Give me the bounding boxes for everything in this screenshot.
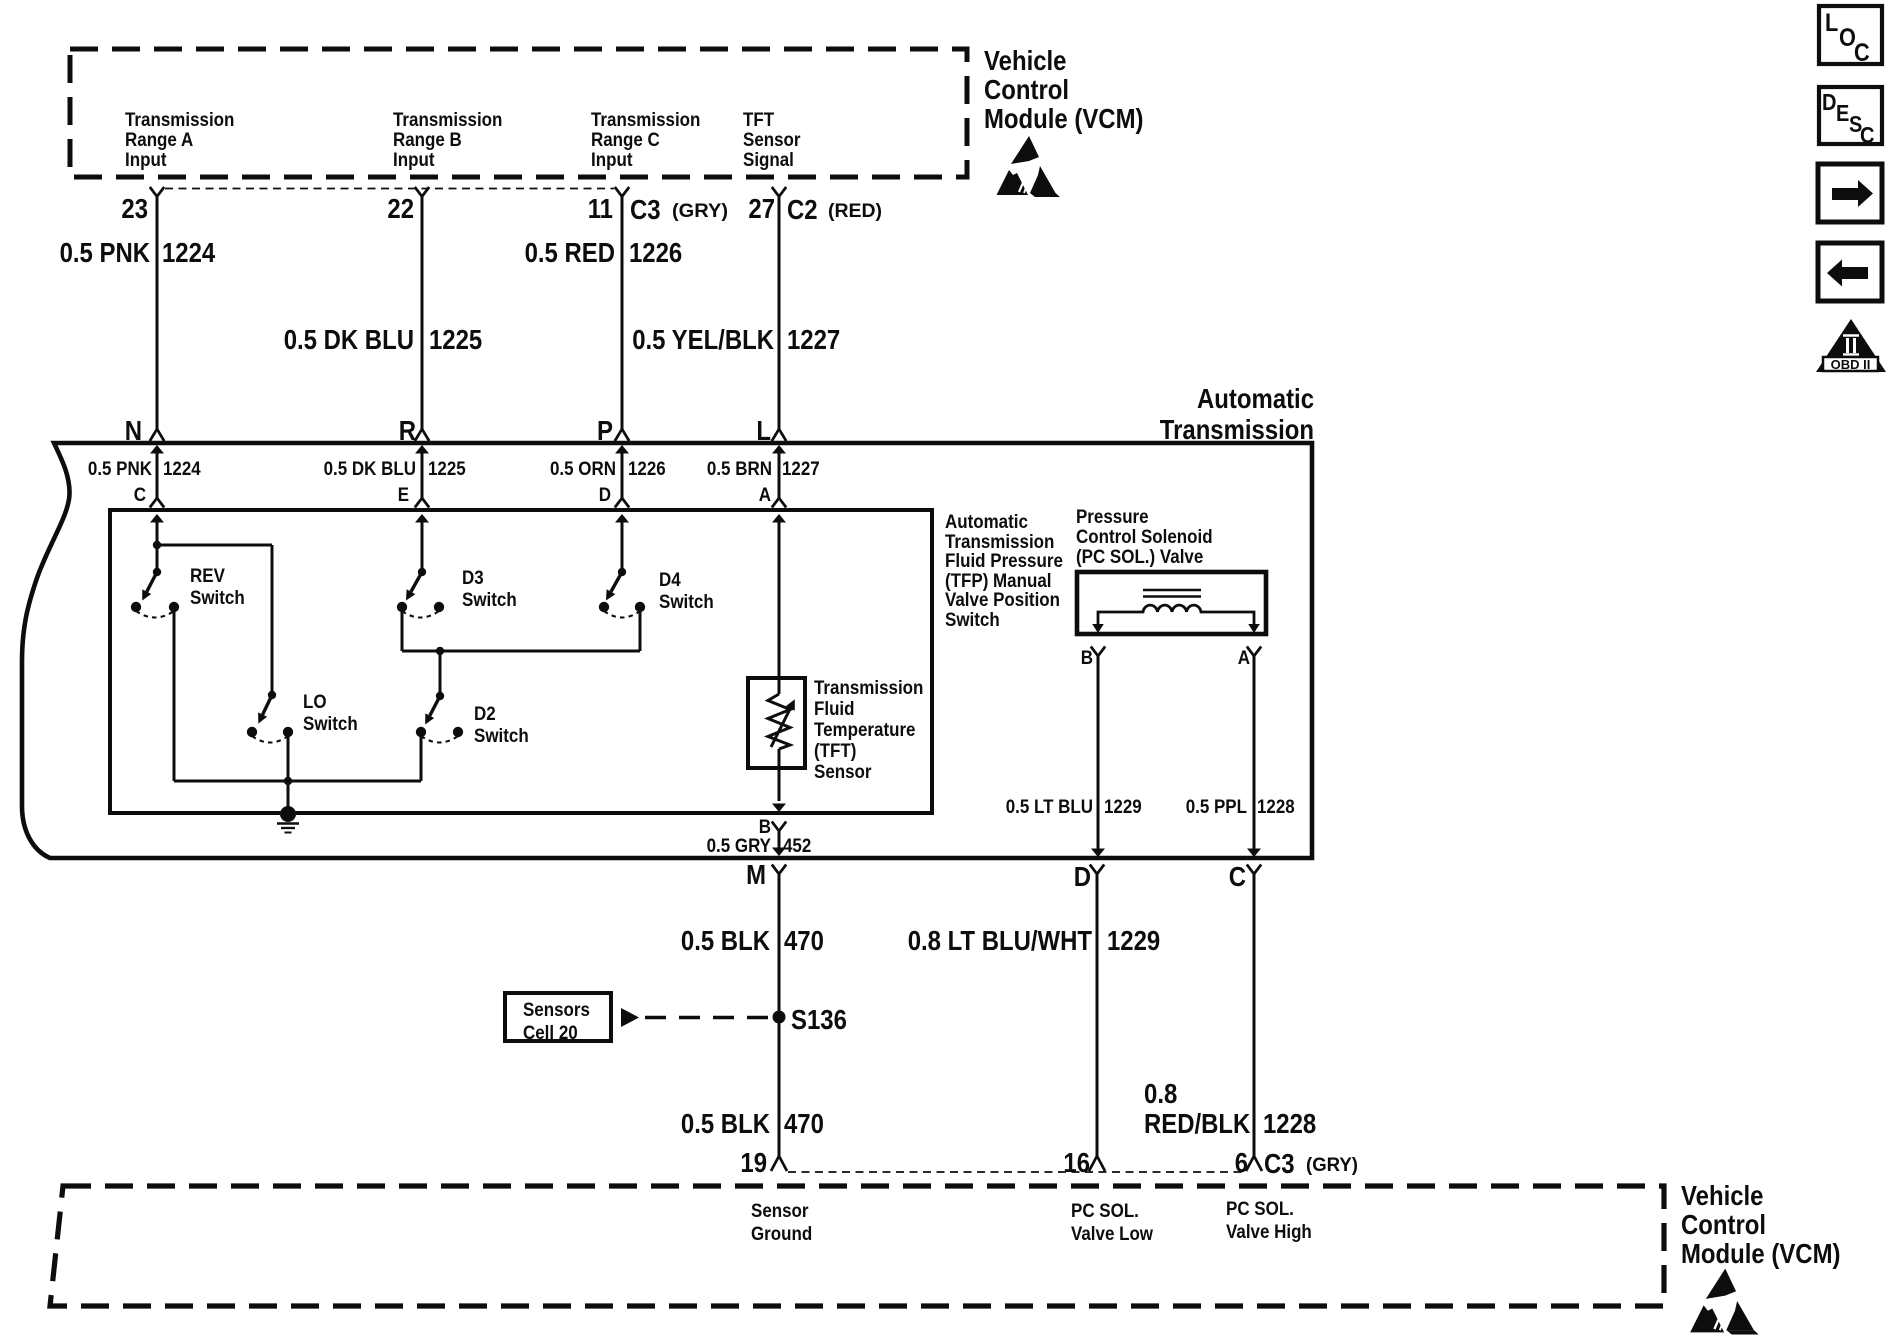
- svg-text:6: 6: [1235, 1147, 1248, 1178]
- svg-text:1224: 1224: [163, 458, 201, 480]
- svg-text:0.5 YEL/BLK: 0.5 YEL/BLK: [632, 324, 774, 355]
- svg-text:0.5 DK BLU: 0.5 DK BLU: [324, 458, 416, 480]
- svg-text:1225: 1225: [429, 324, 482, 355]
- svg-text:0.5 PNK: 0.5 PNK: [88, 458, 152, 480]
- svg-text:1229: 1229: [1107, 925, 1160, 956]
- svg-text:C3: C3: [630, 194, 661, 225]
- svg-text:1226: 1226: [629, 237, 682, 268]
- svg-text:22: 22: [387, 193, 414, 224]
- svg-text:Input: Input: [591, 149, 633, 171]
- svg-text:Vehicle: Vehicle: [1681, 1180, 1764, 1211]
- svg-text:Transmission: Transmission: [393, 109, 502, 131]
- svg-text:Switch: Switch: [659, 591, 714, 613]
- svg-text:PC SOL.: PC SOL.: [1226, 1198, 1294, 1220]
- svg-text:Transmission: Transmission: [125, 109, 234, 131]
- svg-text:Range C: Range C: [591, 129, 660, 151]
- svg-text:Range A: Range A: [125, 129, 193, 151]
- svg-text:Temperature: Temperature: [814, 719, 916, 741]
- svg-text:A: A: [759, 484, 771, 506]
- svg-text:Input: Input: [125, 149, 167, 171]
- svg-text:Transmission: Transmission: [1160, 414, 1314, 445]
- svg-text:0.8 LT BLU/WHT: 0.8 LT BLU/WHT: [908, 925, 1092, 956]
- svg-text:E: E: [1836, 100, 1849, 126]
- svg-text:470: 470: [784, 1108, 824, 1139]
- svg-text:0.5 BRN: 0.5 BRN: [707, 458, 772, 480]
- svg-text:0.5 PPL: 0.5 PPL: [1186, 796, 1247, 818]
- svg-text:1224: 1224: [162, 237, 216, 268]
- svg-text:PC SOL.: PC SOL.: [1071, 1200, 1139, 1222]
- svg-text:1225: 1225: [428, 458, 466, 480]
- svg-text:Transmission: Transmission: [814, 677, 923, 699]
- svg-text:D4: D4: [659, 569, 681, 591]
- svg-text:0.8: 0.8: [1144, 1078, 1177, 1109]
- svg-text:A: A: [1238, 647, 1250, 669]
- svg-text:0.5 GRY: 0.5 GRY: [707, 835, 771, 857]
- svg-text:D2: D2: [474, 703, 496, 725]
- svg-text:Valve High: Valve High: [1226, 1221, 1312, 1243]
- svg-text:1226: 1226: [628, 458, 666, 480]
- svg-text:Vehicle: Vehicle: [984, 45, 1067, 76]
- svg-text:LO: LO: [303, 691, 327, 713]
- svg-text:470: 470: [784, 925, 824, 956]
- svg-text:27: 27: [748, 193, 775, 224]
- svg-text:1227: 1227: [782, 458, 820, 480]
- svg-text:0.5 BLK: 0.5 BLK: [681, 1108, 770, 1139]
- svg-text:Sensor: Sensor: [743, 129, 801, 151]
- svg-text:Ground: Ground: [751, 1223, 812, 1245]
- svg-text:Range B: Range B: [393, 129, 462, 151]
- svg-text:0.5 LT BLU: 0.5 LT BLU: [1006, 796, 1093, 818]
- svg-text:Fluid Pressure: Fluid Pressure: [945, 550, 1063, 572]
- svg-text:Module (VCM): Module (VCM): [1681, 1238, 1841, 1269]
- svg-text:0.5 ORN: 0.5 ORN: [550, 458, 616, 480]
- svg-text:REV: REV: [190, 565, 225, 587]
- svg-text:0.5 PNK: 0.5 PNK: [60, 237, 151, 268]
- svg-text:C: C: [134, 484, 146, 506]
- svg-text:Module (VCM): Module (VCM): [984, 103, 1144, 134]
- svg-text:1228: 1228: [1257, 796, 1295, 818]
- svg-text:19: 19: [740, 1147, 767, 1178]
- svg-text:D: D: [599, 484, 611, 506]
- svg-text:Switch: Switch: [474, 725, 529, 747]
- svg-text:E: E: [398, 484, 409, 506]
- svg-text:Switch: Switch: [462, 589, 517, 611]
- svg-text:23: 23: [121, 193, 148, 224]
- svg-text:Automatic: Automatic: [1197, 383, 1314, 414]
- svg-text:11: 11: [588, 193, 613, 224]
- svg-text:Control Solenoid: Control Solenoid: [1076, 526, 1213, 548]
- svg-text:Valve Low: Valve Low: [1071, 1223, 1154, 1245]
- svg-text:Automatic: Automatic: [945, 511, 1028, 533]
- svg-text:Sensor: Sensor: [751, 1200, 809, 1222]
- svg-text:Sensor: Sensor: [814, 761, 872, 783]
- svg-text:OBD II: OBD II: [1831, 357, 1871, 372]
- svg-text:Control: Control: [984, 74, 1069, 105]
- svg-text:Transmission: Transmission: [591, 109, 700, 131]
- svg-text:Cell 20: Cell 20: [523, 1022, 578, 1044]
- svg-text:(PC SOL.) Valve: (PC SOL.) Valve: [1076, 546, 1203, 568]
- svg-text:1227: 1227: [787, 324, 840, 355]
- svg-text:1229: 1229: [1104, 796, 1142, 818]
- svg-text:1228: 1228: [1263, 1108, 1316, 1139]
- svg-text:Sensors: Sensors: [523, 999, 590, 1021]
- svg-text:16: 16: [1063, 1147, 1090, 1178]
- svg-text:0.5 DK BLU: 0.5 DK BLU: [284, 324, 414, 355]
- svg-text:C: C: [1860, 122, 1875, 148]
- svg-text:D: D: [1074, 861, 1091, 892]
- svg-text:452: 452: [783, 835, 811, 857]
- svg-text:Control: Control: [1681, 1209, 1766, 1240]
- svg-text:B: B: [1081, 647, 1093, 669]
- svg-text:C2: C2: [787, 194, 818, 225]
- svg-text:(GRY): (GRY): [672, 200, 728, 222]
- svg-text:(GRY): (GRY): [1306, 1154, 1358, 1176]
- svg-text:TFT: TFT: [743, 109, 774, 131]
- svg-text:RED/BLK: RED/BLK: [1144, 1108, 1250, 1139]
- svg-text:0.5 BLK: 0.5 BLK: [681, 925, 770, 956]
- svg-text:Fluid: Fluid: [814, 698, 855, 720]
- svg-text:C: C: [1854, 39, 1870, 67]
- svg-text:D: D: [1822, 89, 1837, 115]
- svg-text:Switch: Switch: [945, 609, 1000, 631]
- svg-text:0.5 RED: 0.5 RED: [525, 237, 615, 268]
- svg-text:Pressure: Pressure: [1076, 506, 1149, 528]
- svg-text:D3: D3: [462, 567, 484, 589]
- svg-text:C3: C3: [1264, 1148, 1295, 1179]
- svg-text:Switch: Switch: [190, 587, 245, 609]
- svg-text:(RED): (RED): [828, 200, 882, 222]
- svg-text:C: C: [1229, 861, 1246, 892]
- svg-text:S136: S136: [791, 1004, 847, 1035]
- svg-text:Input: Input: [393, 149, 435, 171]
- svg-text:Signal: Signal: [743, 149, 794, 171]
- svg-text:Switch: Switch: [303, 713, 358, 735]
- svg-text:M: M: [746, 859, 766, 890]
- svg-text:Valve Position: Valve Position: [945, 589, 1060, 611]
- svg-text:(TFT): (TFT): [814, 740, 856, 762]
- svg-text:L: L: [1825, 9, 1838, 37]
